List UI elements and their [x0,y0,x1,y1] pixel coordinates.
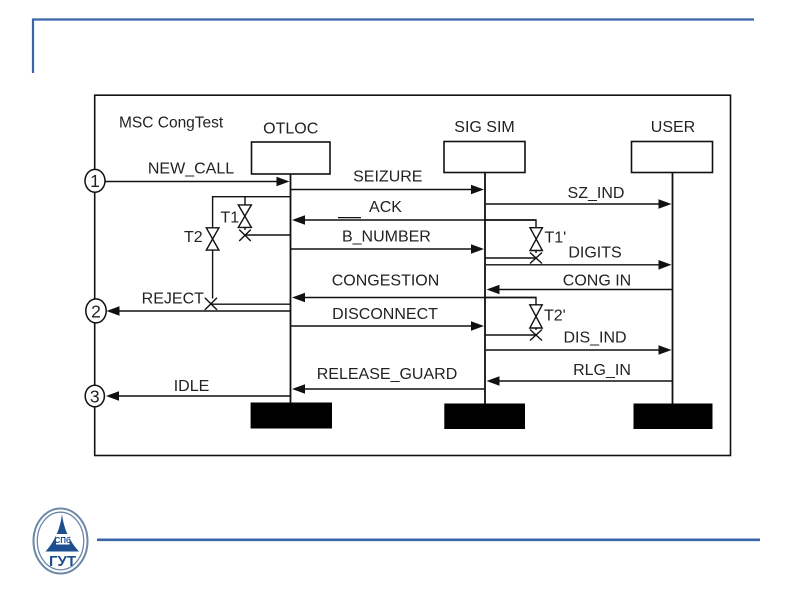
message IDLE [106,378,290,401]
header box SIG SIM [444,142,525,173]
svg-text:T2': T2' [544,308,566,325]
svg-text:T1: T1 [221,210,240,227]
svg-text:DIS_IND: DIS_IND [563,330,626,347]
svg-text:DISCONNECT: DISCONNECT [332,306,438,323]
svg-text:DIGITS: DIGITS [568,245,621,262]
svg-text:RELEASE_GUARD: RELEASE_GUARD [317,366,458,383]
svg-text:NEW_CALL: NEW_CALL [148,161,234,178]
logo SPbGUT [34,509,88,574]
header box OTLOC [252,142,331,174]
slide bottom blue line [97,538,760,541]
node circle 1 [85,169,105,192]
header box USER [632,142,713,173]
svg-text:SEIZURE: SEIZURE [353,168,422,185]
lifeline SIG SIM [484,173,486,405]
message ACK with timer T1' set line [292,199,536,225]
svg-text:ГУТ: ГУТ [49,553,76,570]
svg-text:REJECT: REJECT [142,291,204,308]
message RLG_IN [487,362,673,386]
message B_NUMBER [291,229,484,254]
message DISCONNECT [291,306,484,331]
timer T1 reset X [239,230,290,241]
message NEW_CALL [105,161,290,187]
message DIS_IND [486,330,672,355]
svg-text:USER: USER [651,119,695,136]
svg-text:3: 3 [90,386,100,406]
timer T1' [485,220,566,253]
node circle 3 [85,385,104,407]
message SZ_IND [486,185,672,209]
svg-text:ACK: ACK [369,199,402,216]
svg-text:MSC CongTest: MSC CongTest [119,114,224,131]
svg-text:SZ_IND: SZ_IND [568,185,625,202]
message RELEASE_GUARD [292,366,485,394]
timer T2 timeout X [205,298,290,310]
timer T2' timeout X [485,330,542,341]
slide corner blue line [33,20,754,74]
svg-text:OTLOC: OTLOC [263,121,318,138]
message CONG IN [487,273,673,295]
svg-text:CONG IN: CONG IN [563,273,631,290]
message CONGESTION with timer T2' set line [292,273,536,303]
svg-text:IDLE: IDLE [174,378,210,395]
end bar OTLOC [251,403,332,429]
svg-text:1: 1 [90,171,100,191]
end bar SIG SIM [444,404,525,430]
timer T2' [485,298,566,331]
end bar USER [634,404,713,430]
lifeline OTLOC [290,174,292,403]
timer T1' reset X [485,253,542,264]
svg-text:RLG_IN: RLG_IN [573,362,631,379]
lifeline USER [672,173,674,405]
svg-text:SIG SIM: SIG SIM [454,119,514,136]
message SEIZURE [291,168,484,194]
svg-text:B_NUMBER: B_NUMBER [342,229,431,246]
message REJECT [107,291,291,316]
timer T2 [184,228,219,299]
node circle 2 [86,299,106,323]
svg-text:CONGESTION: CONGESTION [332,273,440,290]
svg-text:2: 2 [91,301,101,321]
timer T1 [221,197,252,230]
timer bracket OTLOC [213,197,290,228]
message DIGITS [486,245,672,270]
diagram frame [95,95,731,455]
svg-text:T1': T1' [545,230,567,247]
svg-text:СПб: СПб [54,536,71,545]
svg-text:T2: T2 [184,229,203,246]
